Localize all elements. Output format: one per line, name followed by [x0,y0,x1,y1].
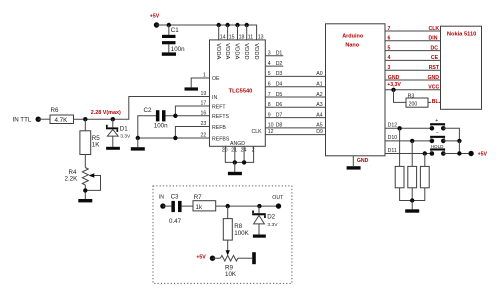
junction R4 wiper/bottom [83,188,87,192]
wire pulldown 2 to bus [411,188,413,201]
svg-text:11: 11 [248,34,253,40]
svg-text:20: 20 [222,147,228,153]
wire 3.3V down to R3 [394,90,407,103]
svg-text:R6: R6 [51,107,59,114]
terminal +5V probe [210,256,215,261]
svg-text:6: 6 [268,82,271,88]
junction D12 pulldown [397,126,401,130]
svg-text:100n: 100n [171,46,185,53]
svg-text:4.7K: 4.7K [55,117,69,124]
svg-text:1: 1 [203,72,206,78]
op-amp U1 TLC5540 body [210,40,266,146]
wire D1 stub [265,55,283,57]
svg-text:D1: D1 [276,51,283,57]
junction right rail hold [457,151,461,155]
svg-text:OUT: OUT [272,195,284,201]
svg-text:D8: D8 [276,123,283,129]
svg-text:DC: DC [431,45,439,51]
wire minus to right rail [443,140,459,142]
wire D3 arduino to RST [385,69,441,71]
svg-text:C2: C2 [144,107,152,114]
wire C2 left to REFBS [138,116,156,138]
svg-text:200: 200 [409,101,418,107]
svg-text:9: 9 [268,112,271,118]
wire REFBS pin22 [138,137,210,139]
svg-text:C3: C3 [171,194,179,201]
svg-text:D4: D4 [276,82,283,88]
svg-text:ANGD: ANGD [230,141,245,147]
svg-text:VDDA: VDDA [224,43,230,59]
svg-text:+: + [435,118,438,124]
ground right of R9 [252,252,256,264]
junction to R5 [83,117,87,121]
svg-text:23: 23 [201,121,207,127]
svg-text:REFT: REFT [212,104,226,110]
svg-text:14: 14 [220,34,226,40]
svg-text:2.28 V(max): 2.28 V(max) [91,110,121,116]
svg-text:100n: 100n [154,123,168,130]
terminal OUT [276,203,281,208]
svg-text:3.3V: 3.3V [267,222,278,228]
svg-text:15: 15 [229,34,235,40]
resistor pulldown 3 [420,166,429,187]
svg-text:R7: R7 [194,194,202,201]
svg-text:D12: D12 [388,123,398,129]
svg-text:22: 22 [201,133,207,139]
potentiometer R4 [82,168,88,186]
svg-text:D6: D6 [276,102,283,108]
junction pin11 [245,23,249,27]
svg-text:HOLD: HOLD [431,144,444,149]
svg-text:D9: D9 [316,129,323,135]
svg-text:D2: D2 [276,61,283,67]
wire D6 to A3 [265,106,325,108]
pushbutton minus [430,139,435,144]
svg-text:GND: GND [357,158,369,164]
wire D10 to pulldown R11 [411,141,413,167]
wire GND arduino to GND nokia [385,79,441,81]
wire stub pin18 [237,25,239,40]
svg-text:VDDD: VDDD [253,43,259,59]
module Nokia 5110 body [441,26,482,109]
zener diode D1 [106,125,118,136]
svg-text:2: 2 [252,147,255,153]
junction C1 [167,23,171,27]
svg-text:R3: R3 [408,93,415,99]
wiper of R4 [85,176,100,191]
ground below chip [228,172,242,175]
svg-text:Nano: Nano [345,43,359,49]
wire node to D1 [112,119,114,127]
boundary dashed box [153,186,292,284]
wire D7 arduino to CLK [385,30,441,32]
svg-text:VCC: VCC [428,85,439,91]
svg-text:VDDD: VDDD [243,43,249,59]
svg-text:12: 12 [268,129,274,135]
svg-text:RST: RST [429,65,440,71]
svg-text:6: 6 [388,36,391,42]
svg-text:3: 3 [268,51,271,57]
ground below D1 [106,147,120,150]
wire stub pin21 [234,146,236,162]
junction 3.3V to R3 [391,88,395,92]
svg-text:GND: GND [428,75,440,81]
svg-text:C1: C1 [171,27,179,34]
wire D1 to ground [112,136,114,147]
wire D2 to ground [258,224,260,235]
wire rail down to hold row [458,141,460,154]
wire REFTS pin16 [167,115,210,117]
svg-text:VDDA: VDDA [234,43,240,59]
svg-text:REFTS: REFTS [212,114,230,120]
wire D11 row [385,153,432,155]
wire D6 arduino to DIN [385,40,441,42]
svg-text:R8: R8 [234,223,242,230]
svg-text:TLC5540: TLC5540 [229,88,253,94]
svg-text:IN: IN [159,195,164,201]
junction pin24 [242,160,246,164]
wire stub pin14 [218,25,220,40]
svg-text:D7: D7 [276,112,283,118]
zener diode D2 [252,211,266,224]
wire D5 to A2 [265,96,325,98]
resistor R6 [50,115,74,124]
junction right rail minus [457,139,461,143]
wire R6 to IN pin [74,97,210,120]
svg-text:+5V: +5V [150,14,160,20]
svg-text:8: 8 [268,102,271,108]
wire 3.3V arduino to VCC [385,89,441,91]
wire D3 to A0 [265,75,325,77]
resistor R3 [406,98,428,107]
wire D4 to A1 [265,86,325,88]
svg-text:CLK: CLK [429,26,440,32]
svg-text:3.3V: 3.3V [120,134,131,140]
wire plus to right rail [443,128,459,141]
wire D11 to pulldown R12 [424,154,426,167]
svg-text:D5: D5 [276,92,283,98]
svg-text:REFBS: REFBS [212,136,230,142]
ground below pulldowns [405,209,419,212]
wire to D2 [258,206,260,213]
wire R5 to R4 [84,155,86,168]
svg-text:5: 5 [268,71,271,77]
wire to ground C2 [137,138,139,147]
pushbutton plus [430,126,435,131]
wire to R5 [84,119,86,131]
svg-text:10K: 10K [225,271,237,278]
svg-text:IN: IN [212,95,217,101]
svg-text:100K: 100K [234,230,249,237]
wire R8 to wiper [227,240,229,251]
junction pin18 [235,23,239,27]
wire IN TTL to R6 [38,118,50,120]
pushbutton HOLD [430,151,435,156]
svg-text:D2: D2 [267,214,275,221]
wire IN to C3 [163,205,172,207]
terminal IN probe [160,203,165,208]
svg-text:A0: A0 [316,71,322,77]
svg-text:DIN: DIN [429,36,438,42]
potentiometer R9 [220,255,238,261]
junction REFT/REFTS [173,114,177,118]
wire R3 to BL [428,101,441,103]
capacitor C1 [168,25,170,35]
resistor R7 [193,201,216,211]
wire stub pin11 [246,25,248,40]
svg-text:A3: A3 [316,102,322,108]
svg-text:Nokia 5110: Nokia 5110 [447,32,476,38]
svg-text:4: 4 [268,61,271,67]
resistor pulldown 2 [408,166,417,187]
svg-text:19: 19 [201,91,207,97]
junction REFB/REFBS [173,136,177,140]
ground below C2 [131,147,145,150]
junction pin15 [225,23,229,27]
wire D12 row [385,127,432,129]
svg-text:A1: A1 [316,82,322,88]
svg-text:0.47: 0.47 [169,218,182,225]
resistor R8 [223,219,232,241]
svg-text:A4: A4 [316,112,322,118]
wire C1 to ground [168,44,170,52]
wire R9 to ground [238,257,252,259]
svg-text:CLK: CLK [252,129,263,135]
wire D5 arduino to DC [385,50,441,52]
svg-text:4: 4 [388,55,391,61]
svg-text:13: 13 [258,34,264,40]
svg-text:A2: A2 [316,92,322,98]
capacitor C3 [171,201,175,212]
wire D8 to A5 [265,127,325,129]
junction pin14 [217,23,221,27]
terminal +5V buttons [468,151,473,156]
terminal IN TTL [36,117,41,122]
svg-text:BL: BL [432,99,440,105]
svg-text:10: 10 [268,123,274,129]
svg-text:3: 3 [388,65,391,71]
svg-text:IN TTL: IN TTL [13,116,32,123]
wire C3 to R7 [182,205,193,207]
svg-text:D11: D11 [388,148,397,154]
wire to R8 [227,206,229,219]
wire +5V to R9 [213,257,221,259]
svg-text:16: 16 [201,110,207,116]
svg-text:1K: 1K [92,142,100,149]
svg-text:5: 5 [388,45,391,51]
wire D12 to pulldown R10 [399,128,401,166]
resistor pulldown 1 [395,166,404,187]
ground below Arduino [347,166,361,169]
wire stub pin15 [227,25,229,40]
wire REFB pin23 [175,127,209,139]
junction pulldown bus [410,198,414,202]
wire CLK to D9 [265,134,325,136]
svg-text:21: 21 [231,147,237,153]
wire REFT pin17 [175,106,209,116]
svg-text:OE: OE [212,76,220,82]
capacitor C2 [156,110,160,121]
wire OE pin1 [191,78,209,87]
wire hold to +5V [443,153,471,155]
svg-text:D1: D1 [120,125,128,132]
svg-text:A5: A5 [316,123,322,129]
svg-text:2.2K: 2.2K [65,175,79,182]
svg-text:7: 7 [268,92,271,98]
svg-text:Arduino: Arduino [342,34,364,40]
wiper arrow R9 [226,250,230,255]
svg-text:7: 7 [388,26,391,32]
wire D7 to A4 [265,117,325,119]
ground below C1 [162,52,176,55]
svg-text:1k: 1k [196,204,203,211]
terminal +5V top [154,22,159,27]
wire to ground ANGD [234,162,236,171]
svg-text:24: 24 [241,147,247,153]
wire bus to ground [411,201,413,210]
ground below D2 [253,235,266,238]
junction to D1 [111,117,115,121]
wire D10 row [385,140,432,142]
wire stub pin24 [243,146,245,162]
svg-text:+5V: +5V [196,255,206,261]
svg-text:D3: D3 [276,71,283,77]
svg-text:CE: CE [431,55,439,61]
wire D4 arduino to CE [385,59,441,61]
ground below R4 [78,199,92,202]
svg-text:−: − [436,131,439,137]
wire +5V rail to pin 13 [157,25,257,40]
ground OE [185,87,199,90]
wire stub pin20 [225,146,253,162]
svg-text:D10: D10 [388,135,398,141]
junction D10 pulldown [410,139,414,143]
svg-text:GND: GND [388,75,400,81]
resistor R5 [80,131,91,155]
module Arduino Nano body [326,24,386,156]
svg-text:+5V: +5V [478,152,488,158]
junction C2/REFBS [136,136,140,140]
junction D2 [257,204,261,208]
svg-text:17: 17 [201,101,207,107]
wire pulldown bus [400,188,425,201]
wire R4 to ground [84,185,86,199]
junction D11 pulldown [423,151,427,155]
wire R7 to OUT [216,205,279,207]
wire Arduino GND stem [352,156,354,166]
svg-text:18: 18 [239,34,245,40]
svg-text:REFB: REFB [212,125,226,131]
junction R8 [226,204,230,208]
wire D2 stub [265,65,283,67]
svg-text:+3,3V: +3,3V [387,82,401,88]
junction pin21 [233,160,237,164]
pin label BL [431,99,439,104]
svg-text:VDDA: VDDA [215,43,221,59]
